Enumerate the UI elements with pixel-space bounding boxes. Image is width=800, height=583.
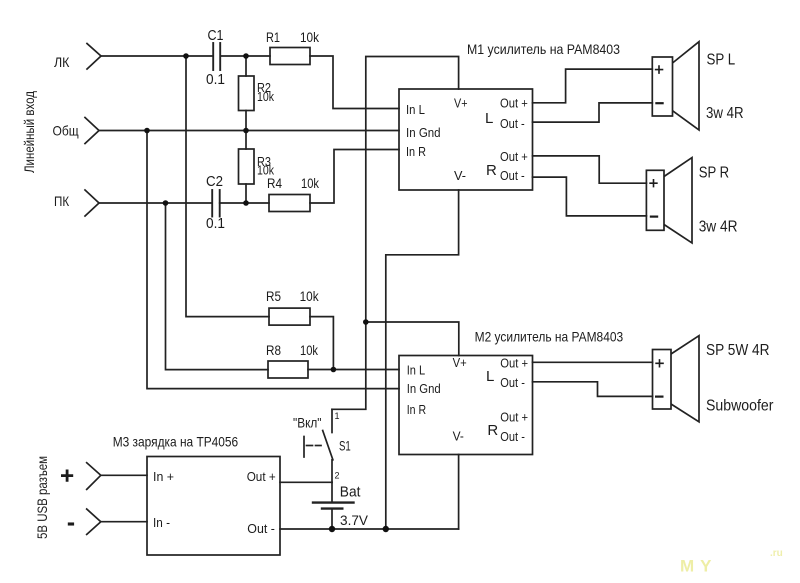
svg-text:М2 усилитель на PAM8403: М2 усилитель на PAM8403 — [475, 329, 624, 345]
svg-text:10k: 10k — [300, 342, 319, 358]
svg-text:Out +: Out + — [500, 355, 528, 370]
svg-text:SP R: SP R — [699, 165, 729, 182]
svg-text:2: 2 — [335, 471, 340, 481]
svg-text:R: R — [487, 422, 498, 439]
svg-text:Out +: Out + — [500, 409, 528, 424]
svg-text:10k: 10k — [257, 164, 275, 178]
svg-text:1: 1 — [335, 411, 340, 421]
svg-text:In Gnd: In Gnd — [406, 125, 441, 140]
svg-text:.ru: .ru — [770, 548, 783, 559]
svg-text:Out +: Out + — [500, 96, 528, 111]
svg-text:SP 5W 4R: SP 5W 4R — [706, 342, 770, 359]
svg-text:ПК: ПК — [54, 193, 70, 209]
svg-text:SP L: SP L — [707, 52, 736, 69]
svg-text:М1 усилитель на PAM8403: М1 усилитель на PAM8403 — [467, 41, 620, 57]
svg-text:In -: In - — [153, 515, 170, 530]
svg-text:0.1: 0.1 — [206, 71, 225, 88]
svg-text:10k: 10k — [300, 29, 320, 45]
svg-text:Out -: Out - — [500, 429, 525, 444]
svg-text:Линейный вход: Линейный вход — [21, 91, 37, 173]
svg-text:10k: 10k — [300, 288, 320, 304]
svg-text:In L: In L — [406, 102, 425, 117]
svg-text:М3 зарядка на ТР4056: М3 зарядка на ТР4056 — [113, 434, 239, 450]
svg-text:Subwoofer: Subwoofer — [706, 398, 774, 415]
svg-text:Out -: Out - — [500, 168, 525, 183]
svg-text:L: L — [485, 110, 493, 127]
svg-text:V-: V- — [453, 429, 464, 444]
svg-text:Общ: Общ — [53, 123, 80, 139]
svg-text:3w 4R: 3w 4R — [699, 219, 738, 236]
svg-text:ЛК: ЛК — [54, 54, 70, 70]
svg-text:R: R — [486, 162, 497, 179]
svg-text:C2: C2 — [206, 173, 223, 190]
svg-text:10k: 10k — [257, 90, 275, 104]
svg-text:5В USB разъем: 5В USB разъем — [34, 456, 50, 539]
svg-text:V+: V+ — [453, 355, 467, 370]
svg-text:In Gnd: In Gnd — [407, 381, 441, 396]
svg-text:MY: MY — [680, 557, 718, 576]
svg-text:In +: In + — [153, 469, 174, 484]
svg-text:R5: R5 — [266, 288, 281, 304]
svg-text:Out +: Out + — [247, 469, 276, 484]
svg-text:10k: 10k — [301, 175, 320, 191]
svg-text:In R: In R — [406, 144, 426, 159]
svg-text:Bat: Bat — [340, 484, 361, 501]
svg-text:R8: R8 — [266, 342, 281, 358]
svg-text:In L: In L — [407, 363, 426, 378]
svg-text:3.7V: 3.7V — [340, 512, 369, 528]
svg-text:S1: S1 — [339, 438, 351, 454]
svg-text:C1: C1 — [208, 27, 224, 44]
svg-text:V-: V- — [454, 168, 466, 183]
svg-text:Out -: Out - — [500, 116, 525, 131]
svg-text:"Вкл": "Вкл" — [293, 415, 322, 431]
svg-text:Out -: Out - — [247, 521, 275, 536]
svg-text:Out -: Out - — [500, 375, 525, 390]
svg-text:3w 4R: 3w 4R — [706, 105, 744, 122]
svg-text:0.1: 0.1 — [206, 215, 225, 232]
svg-text:L: L — [486, 368, 494, 385]
svg-text:In R: In R — [407, 402, 426, 417]
svg-text:R1: R1 — [266, 29, 280, 45]
svg-text:V+: V+ — [454, 96, 468, 111]
svg-text:Out +: Out + — [500, 149, 528, 164]
